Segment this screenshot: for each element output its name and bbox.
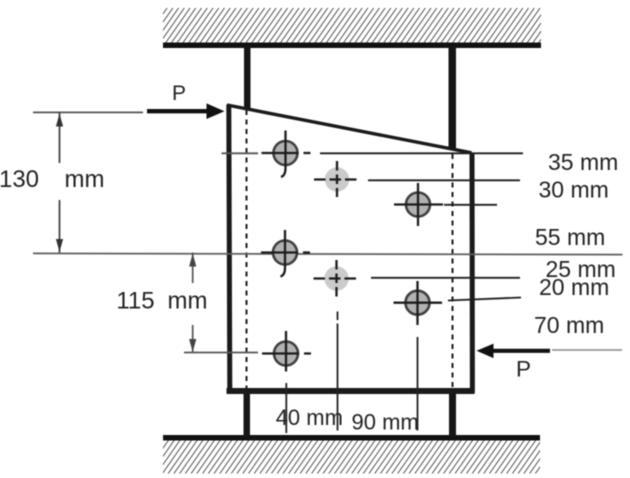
- svg-text:20 mm: 20 mm: [539, 274, 609, 300]
- svg-text:P: P: [172, 82, 186, 105]
- svg-text:mm: mm: [65, 166, 105, 193]
- svg-text:35 mm: 35 mm: [548, 149, 618, 175]
- svg-text:90 mm: 90 mm: [352, 409, 419, 434]
- svg-text:mm: mm: [168, 288, 208, 315]
- svg-text:40 mm: 40 mm: [276, 405, 343, 430]
- svg-text:115: 115: [116, 288, 154, 315]
- svg-text:P: P: [516, 357, 531, 382]
- svg-text:55 mm: 55 mm: [535, 224, 605, 250]
- svg-text:70 mm: 70 mm: [534, 312, 604, 338]
- svg-text:30 mm: 30 mm: [539, 177, 609, 203]
- svg-text:130: 130: [0, 166, 39, 193]
